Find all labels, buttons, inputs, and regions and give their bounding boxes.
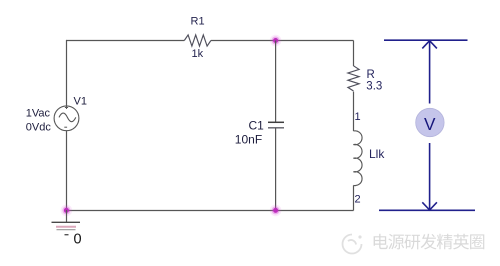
watermark char 英 xyxy=(453,234,469,250)
voltmeter V up arrow xyxy=(422,41,437,104)
svg-text:0Vdc: 0Vdc xyxy=(26,122,52,134)
svg-text:3.3: 3.3 xyxy=(366,80,382,92)
svg-text:0: 0 xyxy=(74,232,82,248)
inductor Llk xyxy=(353,131,362,186)
svg-text:1: 1 xyxy=(355,111,361,123)
wire top right segment xyxy=(211,40,354,42)
node junction ground left xyxy=(61,205,73,217)
wire bottom segment xyxy=(66,210,354,212)
voltmeter V down arrow xyxy=(422,143,437,210)
wire below Llk xyxy=(353,185,355,210)
svg-text:C1: C1 xyxy=(249,119,265,133)
node junction bottom (ground net) xyxy=(270,205,282,217)
watermark char 研 xyxy=(404,235,420,250)
svg-text:V: V xyxy=(424,114,436,134)
voltmeter V probe bottom line xyxy=(379,209,475,211)
resistor R xyxy=(348,66,359,91)
svg-text:Llk: Llk xyxy=(369,147,385,161)
watermark char 源 xyxy=(388,234,404,249)
watermark logo xyxy=(343,235,362,254)
svg-text:10nF: 10nF xyxy=(235,133,262,147)
wire C1 branch upper xyxy=(275,41,277,123)
voltmeter V probe top line xyxy=(384,39,468,41)
voltmeter V body xyxy=(416,108,444,136)
svg-text:1k: 1k xyxy=(192,48,204,60)
capacitor C1 xyxy=(268,122,284,128)
wire top left segment xyxy=(66,40,184,42)
svg-text:V1: V1 xyxy=(74,96,87,108)
node junction top (C1 / R1 net) xyxy=(270,35,282,47)
watermark char 圈 xyxy=(470,234,484,249)
wire left vertical lower xyxy=(66,131,68,210)
svg-text:R1: R1 xyxy=(191,16,205,28)
watermark text 电源研发精英圈 xyxy=(374,234,485,250)
svg-text:1Vac: 1Vac xyxy=(26,108,51,120)
resistor R1 xyxy=(184,35,211,46)
watermark char 电 xyxy=(374,234,388,249)
watermark char 精 xyxy=(437,234,453,250)
svg-text:2: 2 xyxy=(355,194,361,206)
wire between R and Llk xyxy=(353,92,355,131)
wire right vertical upper xyxy=(353,41,355,67)
wire left vertical upper xyxy=(66,40,68,106)
wire C1 branch lower xyxy=(275,128,277,211)
ground 0 xyxy=(52,210,81,235)
voltage source V1 xyxy=(54,106,79,131)
watermark char 发 xyxy=(421,234,437,250)
